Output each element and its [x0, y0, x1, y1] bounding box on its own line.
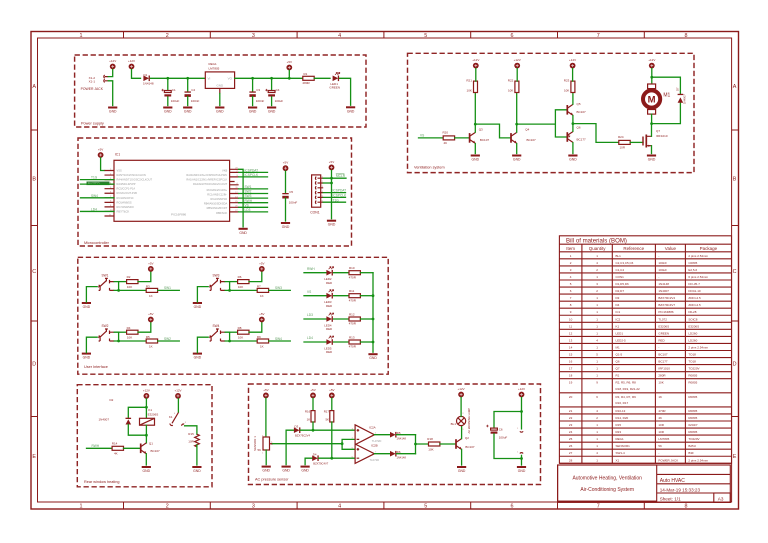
- wire IC1 VSS to gnd vertical: [239, 169, 244, 227]
- svg-text:1: 1: [80, 33, 83, 39]
- R16 labels: [305, 409, 311, 421]
- svg-text:REG1: REG1: [209, 62, 218, 66]
- C3 labels: [256, 88, 265, 103]
- svg-text:100nF: 100nF: [289, 201, 298, 205]
- svg-text:+12V: +12V: [648, 58, 655, 62]
- svg-text:BL1: BL1: [616, 254, 622, 258]
- svg-text:1K: 1K: [149, 344, 153, 348]
- REG1 gnd pin wire: [219, 88, 221, 93]
- diode D6: [390, 451, 397, 457]
- junction motor bottom: [650, 122, 653, 125]
- svg-text:A: A: [32, 84, 36, 90]
- svg-text:3: 3: [252, 33, 255, 39]
- wire Q4 junction to Q5 Q6 bases: [517, 110, 568, 137]
- svg-text:1K: 1K: [260, 294, 264, 298]
- +12V supply at BL1: [458, 387, 465, 397]
- svg-text:10K: 10K: [238, 335, 243, 339]
- wire +12V to rail and to D1: [132, 69, 141, 78]
- transistor Q3: [470, 133, 476, 144]
- junction C3: [251, 77, 254, 80]
- wire gnd to SW4: [197, 337, 208, 352]
- wire R17 down to D4 junction: [331, 422, 333, 458]
- svg-text:+5V: +5V: [310, 388, 315, 392]
- wire to R5: [119, 340, 147, 342]
- regulator REG1 body: [205, 72, 234, 89]
- wire R11 to bus: [360, 295, 373, 297]
- wire Q7 source to gnd: [651, 146, 653, 154]
- svg-text:18: 18: [569, 374, 573, 378]
- svg-text:K1: K1: [148, 408, 152, 412]
- svg-text:1N4007: 1N4007: [683, 94, 687, 104]
- junction motor top: [650, 76, 653, 79]
- svg-text:R15: R15: [188, 432, 194, 436]
- svg-text:23: 23: [569, 423, 573, 427]
- svg-text:1N4007: 1N4007: [99, 417, 110, 421]
- wire CON1 pin4 ICSPDAT: [323, 192, 345, 194]
- D3 labels: [295, 425, 311, 438]
- svg-text:SW4: SW4: [275, 337, 282, 341]
- ground Q2: [457, 466, 466, 473]
- svg-text:10K: 10K: [658, 381, 663, 385]
- +5V supply at sensor: [263, 388, 269, 398]
- svg-text:VI: VI: [208, 76, 211, 80]
- svg-text:5K: 5K: [658, 444, 662, 448]
- wire Q5 emitter to Q6 collector: [572, 116, 574, 132]
- title block right rows: [657, 474, 731, 493]
- junction R16 D3: [312, 429, 315, 432]
- wire motor bottom to junction: [651, 114, 653, 124]
- ground SW4: [193, 353, 202, 360]
- svg-text:10K: 10K: [428, 448, 433, 452]
- svg-text:LD4: LD4: [307, 336, 313, 340]
- R11 labels: [349, 289, 357, 302]
- svg-text:D1: D1: [144, 73, 148, 77]
- capacitor C1 polarized: [162, 89, 172, 97]
- +5V supply at R16: [310, 388, 316, 398]
- svg-text:SW2: SW2: [102, 324, 109, 328]
- svg-text:2: 2: [166, 504, 169, 510]
- svg-text:5: 5: [424, 33, 427, 39]
- svg-text:-: -: [658, 451, 659, 455]
- svg-text:10K: 10K: [467, 88, 472, 92]
- ground IC1: [239, 228, 248, 235]
- svg-text:RWH: RWH: [245, 199, 253, 203]
- junction SW3: [228, 289, 231, 292]
- svg-text:SENSOR1: SENSOR1: [616, 444, 631, 448]
- switch SW4: [209, 329, 225, 341]
- CON1 pin stubs: [318, 178, 324, 202]
- wire SW2 out: [239, 193, 268, 195]
- wire Q7 drain up to motor: [651, 124, 653, 137]
- resistor R2: [127, 280, 138, 284]
- wire Q4 collector to R22: [516, 93, 518, 133]
- svg-text:+5V: +5V: [98, 147, 103, 151]
- wire gnd to SW2: [86, 337, 97, 352]
- wire R8 to +5V: [249, 322, 262, 332]
- resistor R22: [515, 81, 519, 92]
- wire coil to Q1 collector: [145, 425, 147, 443]
- capacitor C6 polarized: [486, 425, 497, 434]
- svg-text:D: D: [32, 361, 36, 367]
- +12V supply symbol rail: [128, 59, 135, 70]
- wire D3 anode to gnd: [286, 430, 294, 464]
- svg-text:ZDIO-2.5: ZDIO-2.5: [688, 303, 701, 307]
- svg-text:7: 7: [597, 33, 600, 39]
- junction SW4: [228, 340, 231, 343]
- svg-text:REG1: REG1: [616, 437, 625, 441]
- ground C6: [517, 466, 526, 473]
- svg-text:R0805: R0805: [688, 381, 697, 385]
- svg-text:1N4007: 1N4007: [658, 289, 669, 293]
- svg-text:BZX79C2V4: BZX79C2V4: [295, 433, 310, 437]
- svg-text:SW3: SW3: [213, 273, 220, 277]
- motor M1: [643, 84, 660, 114]
- R15 labels: [188, 432, 194, 443]
- svg-text:RB6/SCK: RB6/SCK: [216, 211, 227, 215]
- ground C3: [248, 107, 257, 114]
- svg-text:470R: 470R: [349, 345, 357, 349]
- junction pair output: [572, 122, 575, 125]
- svg-text:POWER JACK: POWER JACK: [658, 458, 678, 462]
- wire down to C1: [167, 78, 169, 91]
- resistor R15 zigzag: [195, 434, 200, 447]
- svg-text:10: 10: [569, 317, 573, 321]
- wire LED1 to gnd: [340, 78, 351, 105]
- wire CON1 pin5 ICSPCLK: [323, 196, 345, 198]
- svg-text:PIC16F886: PIC16F886: [171, 213, 187, 217]
- D5 labels: [397, 431, 407, 441]
- resistor R17: [330, 411, 334, 422]
- capacitor C4 polarized: [265, 89, 275, 97]
- svg-text:2 pins 2.54mm: 2 pins 2.54mm: [688, 345, 708, 349]
- relay K1 coil: [140, 418, 155, 425]
- svg-text:SW2: SW2: [245, 190, 252, 194]
- wire D6 to bus: [397, 453, 416, 455]
- svg-text:14: 14: [569, 345, 573, 349]
- ground Q7: [647, 155, 656, 162]
- svg-text:R17: R17: [324, 409, 330, 413]
- wire SW3 out: [239, 197, 268, 199]
- svg-text:POWER JACK: POWER JACK: [81, 87, 104, 91]
- wire gnd to SW1: [86, 287, 97, 302]
- wire R9 to net SW4: [269, 340, 291, 342]
- IC2A labels: [369, 426, 381, 444]
- transistor Q5: [567, 104, 573, 115]
- wire LD4 to LED5: [304, 341, 326, 343]
- wire to R7: [230, 289, 258, 291]
- wire R15 to gnd: [196, 445, 198, 465]
- resistor R4: [127, 330, 138, 334]
- svg-text:4K: 4K: [114, 452, 118, 456]
- wire Q5 collector to R23: [572, 93, 574, 105]
- svg-text:LM7805: LM7805: [658, 437, 669, 441]
- svg-text:6 pins 2.54mm: 6 pins 2.54mm: [688, 275, 708, 279]
- ground R15: [192, 466, 201, 473]
- wire VS out: [239, 206, 268, 208]
- svg-text:C3: C3: [256, 88, 260, 92]
- svg-text:4: 4: [338, 33, 341, 39]
- wire sensor wiper main: [273, 443, 343, 445]
- wire CON1 +5V vertical to gnd: [331, 170, 333, 218]
- resistor R12: [349, 317, 360, 321]
- svg-text:RC2/AN6/P1D: RC2/AN6/P1D: [210, 197, 227, 201]
- svg-text:IRF1010: IRF1010: [658, 367, 670, 371]
- svg-text:R14, R20: R14, R20: [616, 416, 629, 420]
- wire T1G to IC1: [81, 179, 115, 181]
- svg-text:Q5: Q5: [577, 102, 581, 106]
- svg-text:17: 17: [569, 367, 573, 371]
- svg-text:E3206S: E3206S: [148, 413, 159, 417]
- svg-text:Reference: Reference: [623, 246, 644, 251]
- svg-text:+12V: +12V: [569, 58, 576, 62]
- wire D7 branch: [652, 77, 681, 123]
- svg-text:R8: R8: [238, 326, 242, 330]
- svg-text:-: -: [658, 254, 659, 258]
- svg-text:Q7: Q7: [656, 129, 660, 133]
- wire VS to LED3: [304, 295, 326, 297]
- +5V supply SW1: [148, 262, 154, 272]
- svg-text:5: 5: [424, 504, 427, 510]
- svg-text:Q3: Q3: [479, 128, 483, 132]
- relay K1 contact: [170, 413, 184, 426]
- CON1 pin numbers: [322, 176, 324, 202]
- R10 labels: [349, 266, 357, 279]
- svg-text:R15: R15: [616, 423, 622, 427]
- Q2 labels: [465, 436, 475, 449]
- R4 labels: [127, 326, 133, 340]
- net label BUZZER highlighted: [87, 182, 110, 186]
- svg-text:R14: R14: [112, 441, 118, 445]
- svg-text:+12V: +12V: [472, 58, 479, 62]
- ground LED1: [346, 106, 355, 113]
- svg-text:R13: R13: [349, 335, 355, 339]
- svg-text:VS: VS: [307, 290, 311, 294]
- wire LD3 to LED4: [304, 318, 326, 320]
- svg-text:+5V: +5V: [148, 312, 153, 316]
- wire D2 bottom loop: [128, 425, 146, 436]
- R21 labels: [466, 79, 472, 93]
- svg-text:100nF: 100nF: [658, 261, 667, 265]
- wire C4 to gnd: [271, 97, 273, 106]
- svg-text:B: B: [733, 177, 737, 183]
- ground SW3: [193, 302, 202, 309]
- wire RWH out: [239, 202, 268, 204]
- D7 labels vertical: [675, 87, 686, 104]
- led LED3: [326, 290, 333, 299]
- svg-text:K1: K1: [616, 324, 620, 328]
- led LED2: [326, 267, 333, 276]
- LED3 labels: [324, 300, 332, 308]
- svg-text:21: 21: [569, 409, 573, 413]
- R8 labels: [238, 326, 244, 340]
- svg-text:280R: 280R: [658, 374, 666, 378]
- svg-text:R0805: R0805: [688, 395, 697, 399]
- svg-text:C: C: [32, 269, 36, 275]
- svg-text:2: 2: [166, 33, 169, 39]
- wire BUZZER to IC1: [81, 183, 115, 185]
- wire +5V to rail: [288, 70, 290, 78]
- wire R2 to +5V: [138, 272, 151, 282]
- wire +12V down to connector pin: [521, 397, 523, 429]
- connector X2 pin 1 hook: [520, 430, 523, 433]
- net label MCLR overlined: [336, 174, 346, 178]
- wire +12V to R23: [572, 69, 574, 82]
- lamp BL1: [457, 416, 466, 425]
- resistor R20: [443, 136, 454, 140]
- REG1 pin texts: [208, 76, 233, 87]
- +12V supply at R23: [569, 58, 576, 69]
- R2 labels: [127, 275, 133, 289]
- svg-text:DIL28: DIL28: [688, 310, 696, 314]
- svg-text:1N4148: 1N4148: [397, 437, 407, 441]
- svg-text:VS: VS: [245, 203, 249, 207]
- SENSOR1 pin numbers: [262, 435, 273, 454]
- svg-text:RA1/AN1/C12IN1-/NREF/ICSPCLK: RA1/AN1/C12IN1-/NREF/ICSPCLK: [186, 178, 227, 182]
- wire +5V to sensor: [265, 398, 267, 437]
- ground at jack: [108, 107, 117, 114]
- resistor R9: [257, 339, 268, 343]
- svg-text:16: 16: [569, 360, 573, 364]
- svg-text:1N4148: 1N4148: [397, 456, 407, 460]
- junction SW1: [117, 289, 120, 292]
- wire Q6 emitter to gnd: [572, 143, 574, 154]
- IC1 right pin stubs: [230, 169, 239, 212]
- svg-text:TL072D: TL072D: [372, 439, 382, 443]
- svg-text:E3206S: E3206S: [658, 324, 669, 328]
- svg-text:0204/7: 0204/7: [688, 423, 698, 427]
- svg-text:28: 28: [569, 458, 573, 462]
- resistor R10: [349, 271, 360, 275]
- svg-text:+12V: +12V: [143, 388, 150, 392]
- wire SW1 out: [239, 188, 268, 190]
- R5 labels: [146, 335, 153, 348]
- svg-text:TO18: TO18: [688, 353, 696, 357]
- svg-text:1K: 1K: [260, 344, 264, 348]
- svg-text:TO220V: TO220V: [688, 367, 699, 371]
- IC1 right pin numbers: [235, 168, 238, 213]
- wire CON1 pin6 T1G: [323, 201, 345, 203]
- svg-text:1: 1: [80, 504, 83, 510]
- svg-text:100uF: 100uF: [499, 436, 508, 440]
- svg-text:13: 13: [569, 338, 573, 342]
- wire to R6: [230, 281, 238, 283]
- svg-text:+12V: +12V: [518, 387, 525, 391]
- svg-text:LED1: LED1: [616, 331, 624, 335]
- svg-text:Quantity: Quantity: [589, 246, 607, 251]
- diode D2 flyback: [126, 418, 132, 425]
- svg-text:VO: VO: [228, 76, 233, 80]
- +5V supply symbol: [286, 60, 292, 71]
- svg-text:Microcontroller: Microcontroller: [84, 241, 110, 245]
- svg-text:D1,D5,D6: D1,D5,D6: [616, 282, 630, 286]
- svg-text:RC3/AN/CP1C: RC3/AN/CP1C: [117, 196, 134, 200]
- svg-text:M1: M1: [663, 93, 670, 99]
- title block project cell: [558, 465, 657, 501]
- svg-text:IC2B: IC2B: [371, 443, 378, 447]
- svg-text:+5V: +5V: [283, 161, 288, 165]
- svg-text:Package: Package: [700, 246, 718, 251]
- R18 labels: [427, 437, 433, 452]
- Q1 labels: [149, 442, 160, 453]
- wire R16 to junction: [312, 422, 314, 430]
- svg-text:R2, R5, R6, R8: R2, R5, R6, R8: [616, 381, 637, 385]
- svg-text:1K: 1K: [307, 418, 311, 422]
- svg-text:Item: Item: [566, 246, 575, 251]
- svg-text:ZDIO-2.5: ZDIO-2.5: [688, 296, 701, 300]
- svg-text:LED2-5: LED2-5: [616, 338, 627, 342]
- ground D4: [301, 466, 310, 473]
- svg-text:R1: R1: [304, 72, 308, 76]
- svg-text:SW4: SW4: [213, 324, 220, 328]
- svg-text:R2: R2: [127, 275, 131, 279]
- svg-text:SW2: SW2: [164, 337, 171, 341]
- +12V supply symbol at jack: [109, 59, 116, 70]
- wire SW4 to IC1: [81, 197, 115, 199]
- D1 labels: [143, 73, 154, 86]
- svg-text:22: 22: [569, 416, 573, 420]
- svg-text:RC1/AN5/C12IN-: RC1/AN5/C12IN-: [207, 192, 227, 196]
- wire C6 top branch: [494, 412, 522, 428]
- wire R7 to net SW3: [269, 289, 291, 291]
- wire +12V to K1 coil: [145, 399, 147, 419]
- IC2A pin numbers: [352, 429, 377, 440]
- svg-text:ICSPDAT: ICSPDAT: [245, 169, 259, 173]
- svg-text:TL072: TL072: [658, 317, 667, 321]
- zener diode D3: [294, 427, 301, 433]
- wire +5V to R16: [312, 398, 314, 410]
- connector CON1 body: [312, 175, 321, 207]
- LED2 labels: [324, 277, 332, 285]
- wire R12 to bus: [360, 318, 373, 320]
- SENSOR1 labels: [253, 436, 261, 452]
- svg-text:3: 3: [252, 504, 255, 510]
- Q5 labels: [577, 102, 587, 114]
- svg-text:100uF: 100uF: [275, 99, 284, 103]
- svg-text:ICSPCLK: ICSPCLK: [333, 194, 348, 198]
- svg-text:19: 19: [569, 381, 573, 385]
- R22 labels: [508, 79, 514, 93]
- svg-text:R10-13: R10-13: [616, 409, 626, 413]
- wire to R8: [230, 331, 238, 333]
- wire VS to R20: [419, 137, 444, 139]
- BOM column lines: [582, 244, 686, 463]
- svg-text:R10: R10: [349, 266, 355, 270]
- svg-text:Bill of materials (BOM): Bill of materials (BOM): [566, 238, 627, 245]
- svg-text:C1,C4: C1,C4: [616, 268, 625, 272]
- switch SW1: [98, 278, 114, 290]
- +5V supply at CON1: [329, 160, 335, 171]
- wire Q3 junction to Q4 base: [475, 124, 511, 138]
- +12V supply at C6: [518, 387, 525, 397]
- wire +12V to motor top: [651, 69, 653, 85]
- D4 labels: [313, 453, 329, 466]
- svg-text:14-Mar-19 15:33:23: 14-Mar-19 15:33:23: [660, 487, 701, 492]
- ground C5: [281, 222, 290, 229]
- svg-text:E2,5-6: E2,5-6: [688, 268, 697, 272]
- wire LD4 to IC1: [81, 210, 115, 212]
- svg-text:1N4148: 1N4148: [143, 82, 154, 86]
- svg-text:RED: RED: [326, 281, 332, 285]
- sheet frame inner border: [38, 38, 732, 502]
- wire R6 to +5V: [249, 272, 262, 282]
- transistor Q6: [567, 132, 573, 143]
- LED1 diode: [333, 72, 340, 81]
- svg-text:+5V: +5V: [329, 388, 334, 392]
- op-amp IC2A: [355, 425, 374, 445]
- svg-text:Q6: Q6: [577, 126, 581, 130]
- svg-text:X1-1: X1-1: [89, 80, 96, 84]
- wire to R9: [230, 340, 258, 342]
